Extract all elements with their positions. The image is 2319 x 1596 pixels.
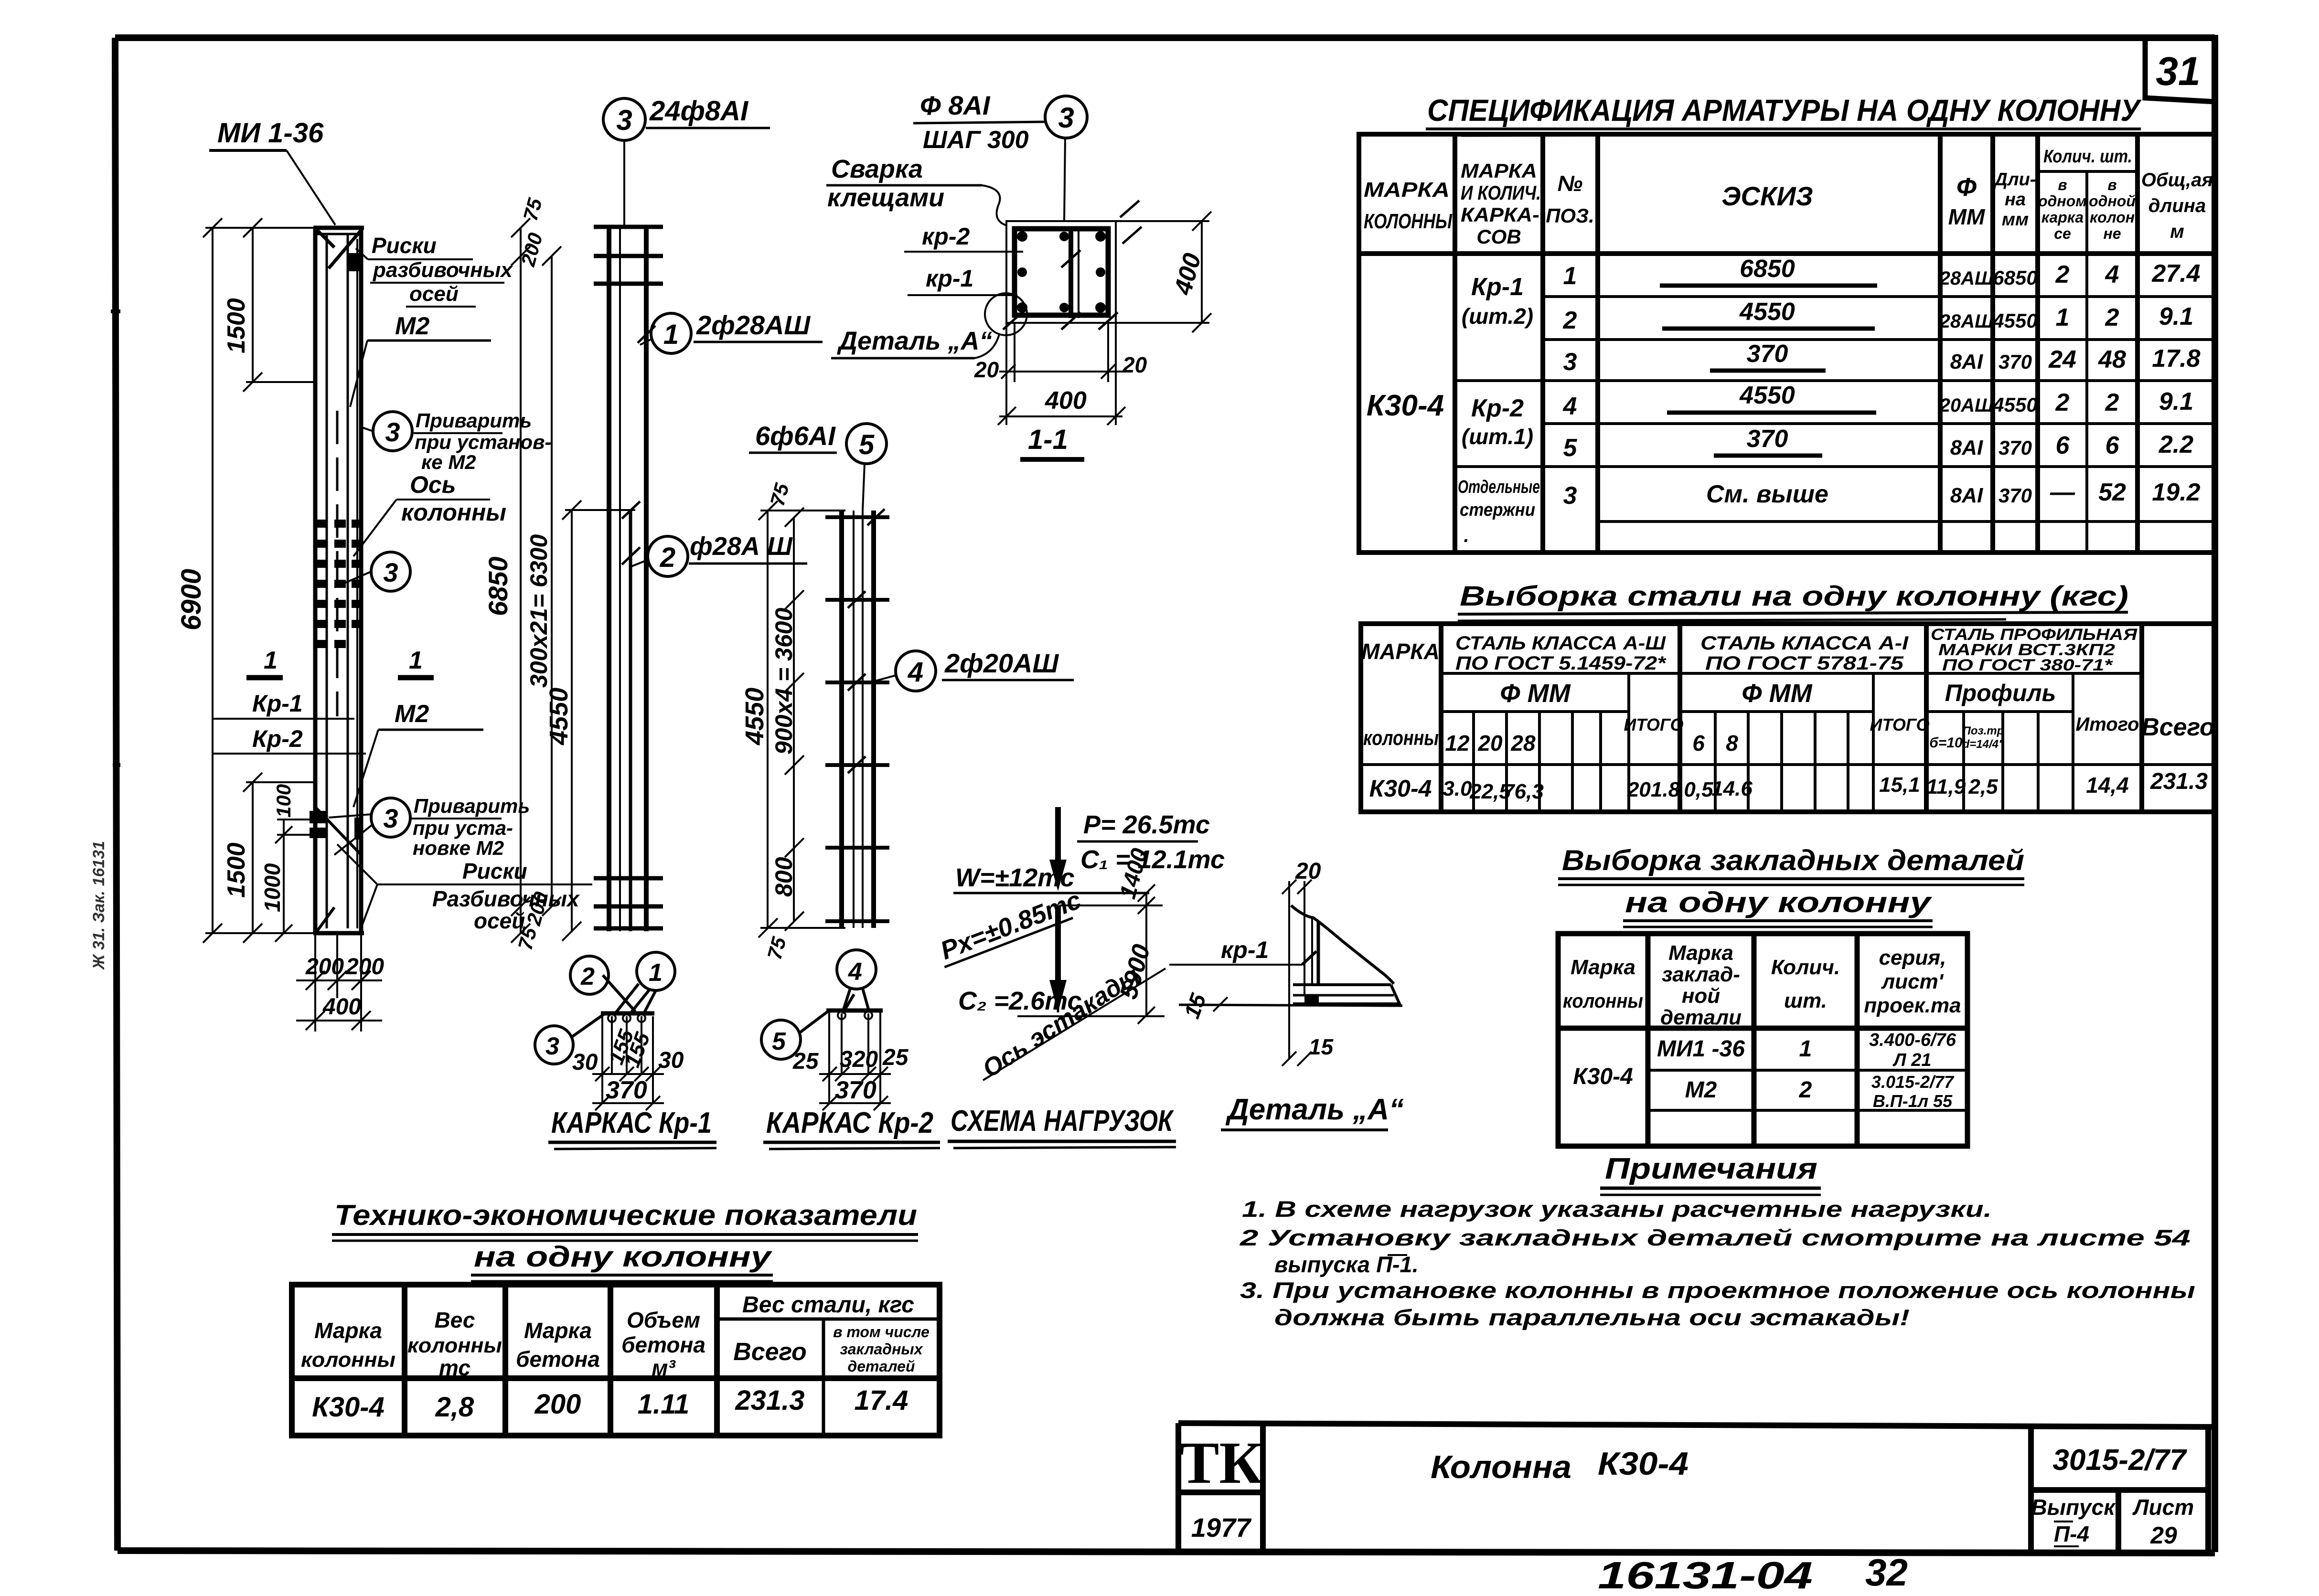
svg-text:кр-1: кр-1 xyxy=(1221,936,1269,963)
svg-text:2,8: 2,8 xyxy=(435,1392,474,1423)
svg-text:2: 2 xyxy=(1563,307,1577,334)
tick marks on bars xyxy=(622,326,655,564)
svg-text:—: — xyxy=(2050,479,2075,506)
svg-text:колон: колон xyxy=(2090,209,2135,226)
svg-text:2ф28АШ: 2ф28АШ xyxy=(696,310,811,340)
svg-text:Профиль: Профиль xyxy=(1945,680,2056,706)
svg-text:на одну колонну: на одну колонну xyxy=(1625,886,1932,918)
svg-text:лист': лист' xyxy=(1881,970,1944,993)
svg-text:в том числе: в том числе xyxy=(833,1323,930,1341)
svg-text:се: се xyxy=(2054,225,2071,242)
svg-text:4550: 4550 xyxy=(1739,298,1795,326)
callout 3 bottom with text xyxy=(371,798,410,837)
svg-text:400: 400 xyxy=(322,994,361,1020)
svg-text:370: 370 xyxy=(1998,484,2032,507)
svg-text:закладных: закладных xyxy=(840,1341,923,1358)
svg-text:d=14/4": d=14/4" xyxy=(1963,738,2004,751)
svg-text:ПОЗ.: ПОЗ. xyxy=(1546,204,1594,227)
svg-text:4: 4 xyxy=(908,657,923,688)
svg-text:М2: М2 xyxy=(395,312,429,340)
svg-text:1-1: 1-1 xyxy=(1028,424,1068,455)
svg-text:Отдельные: Отдельные xyxy=(1458,477,1540,497)
svg-text:К30-4: К30-4 xyxy=(1598,1446,1688,1482)
svg-text:6850: 6850 xyxy=(483,556,513,616)
svg-text:Приварить: Приварить xyxy=(414,795,530,817)
svg-text:СТАЛЬ КЛАССА А-Ш: СТАЛЬ КЛАССА А-Ш xyxy=(1455,633,1666,654)
svg-text:Л 21: Л 21 xyxy=(1892,1050,1932,1070)
svg-text:5: 5 xyxy=(1563,434,1578,462)
svg-text:К30-4: К30-4 xyxy=(312,1392,385,1423)
svg-text:Приварить: Приварить xyxy=(416,409,532,432)
svg-text:29: 29 xyxy=(2150,1522,2177,1549)
svg-text:разбивочных: разбивочных xyxy=(373,258,513,282)
weld tie bands middle xyxy=(316,520,362,648)
dims 6850 / 300x21=6300 between column and cage xyxy=(511,218,561,943)
svg-text:Всего: Всего xyxy=(2141,713,2215,741)
svg-text:клещами: клещами xyxy=(827,183,944,212)
svg-text:Марка: Марка xyxy=(1571,956,1635,979)
svg-text:30: 30 xyxy=(572,1050,598,1075)
svg-text:Деталь „А“: Деталь „А“ xyxy=(1225,1093,1404,1126)
svg-text:Всего: Всего xyxy=(733,1338,807,1366)
svg-text:карка: карка xyxy=(2041,209,2084,226)
svg-text:Сварка: Сварка xyxy=(831,155,923,183)
dim 1000 and 100 bottom xyxy=(275,819,315,942)
middle bars xyxy=(1069,226,1073,318)
svg-text:Колич.: Колич. xyxy=(1771,956,1840,979)
svg-text:Ф 8АІ: Ф 8АІ xyxy=(920,90,991,120)
svg-text:2: 2 xyxy=(1799,1077,1812,1103)
svg-text:15: 15 xyxy=(1309,1034,1334,1059)
svg-text:25: 25 xyxy=(792,1049,819,1074)
svg-text:ПО ГОСТ 5781-75: ПО ГОСТ 5781-75 xyxy=(1705,653,1904,674)
column corner contour xyxy=(1291,905,1394,984)
svg-text:деталей: деталей xyxy=(847,1358,915,1375)
svg-text:К30-4: К30-4 xyxy=(1367,389,1444,422)
svg-text:Технико-экономические показате: Технико-экономические показатели xyxy=(334,1199,917,1231)
svg-text:осей: осей xyxy=(409,282,459,306)
svg-text:28АШ: 28АШ xyxy=(1939,311,1994,332)
svg-text:серия,: серия, xyxy=(1879,946,1946,969)
top embedded detail MI1-36 xyxy=(316,229,361,268)
svg-text:16131-04: 16131-04 xyxy=(1598,1554,1813,1596)
sheet number box 31 xyxy=(2145,39,2215,102)
svg-text:Колич. шт.: Колич. шт. xyxy=(2043,147,2132,167)
bottom width dims 200 200 400 xyxy=(296,933,382,1032)
svg-text:370: 370 xyxy=(1998,436,2032,459)
svg-text:6: 6 xyxy=(2105,432,2120,459)
svg-text:ИТОГО: ИТОГО xyxy=(1624,715,1683,734)
svg-text:3: 3 xyxy=(385,417,400,447)
svg-text:27.4: 27.4 xyxy=(2151,260,2200,287)
svg-text:в: в xyxy=(2058,176,2067,193)
svg-text:Поз.тр: Поз.тр xyxy=(1963,724,2004,737)
svg-text:3: 3 xyxy=(616,104,632,136)
svg-text:Итого: Итого xyxy=(2075,714,2139,735)
svg-text:.: . xyxy=(1464,525,1469,546)
svg-text:СТАЛЬ КЛАССА А-I: СТАЛЬ КЛАССА А-I xyxy=(1700,633,1909,654)
section square outer xyxy=(1006,221,1116,323)
sketch bars in eskiz column xyxy=(1660,286,1877,456)
svg-text:И КОЛИЧ.: И КОЛИЧ. xyxy=(1461,181,1541,204)
bottom diagonal marks xyxy=(315,807,361,934)
svg-text:2.2: 2.2 xyxy=(2159,431,2193,458)
svg-text:КОЛОННЫ: КОЛОННЫ xyxy=(1364,210,1453,233)
svg-text:1: 1 xyxy=(649,959,663,987)
svg-text:длина: длина xyxy=(2148,195,2206,216)
svg-text:400: 400 xyxy=(1045,387,1087,415)
svg-text:КАРКАС Кр-2: КАРКАС Кр-2 xyxy=(766,1107,933,1139)
spec rows: poz / sketch / dia / len / qty / qty / total xyxy=(1563,255,2201,510)
svg-text:C₁ = 12.1тс: C₁ = 12.1тс xyxy=(1080,845,1225,874)
svg-text:8АІ: 8АІ xyxy=(1950,350,1983,373)
svg-text:2,5: 2,5 xyxy=(1968,775,1998,798)
svg-text:(шт.2): (шт.2) xyxy=(1462,304,1533,329)
svg-text:шт.: шт. xyxy=(1784,989,1827,1012)
svg-text:Объем: Объем xyxy=(627,1308,700,1332)
svg-text:ф28А Ш: ф28А Ш xyxy=(690,532,793,561)
svg-text:8АІ: 8АІ xyxy=(1950,484,1983,507)
svg-text:осей: осей xyxy=(474,908,525,933)
svg-text:800: 800 xyxy=(770,857,797,897)
svg-text:3: 3 xyxy=(545,1032,559,1060)
svg-text:2: 2 xyxy=(660,542,675,573)
svg-text:Ф ММ: Ф ММ xyxy=(1500,679,1571,708)
svg-text:МИ1 -36: МИ1 -36 xyxy=(1657,1036,1745,1062)
svg-text:новке М2: новке М2 xyxy=(413,837,504,859)
svg-text:Выборка закладных деталей: Выборка закладных деталей xyxy=(1562,844,2024,876)
svg-text:4550: 4550 xyxy=(1739,382,1795,409)
svg-text:К30-4: К30-4 xyxy=(1369,775,1432,802)
svg-text:СХЕМА НАГРУЗОК: СХЕМА НАГРУЗОК xyxy=(951,1105,1174,1138)
svg-text:стержни: стержни xyxy=(1460,500,1535,520)
svg-text:30: 30 xyxy=(658,1048,684,1073)
svg-text:Выпуск: Выпуск xyxy=(2031,1495,2116,1520)
spec table grid xyxy=(1359,134,2215,553)
svg-text:3: 3 xyxy=(383,803,398,833)
svg-text:2: 2 xyxy=(580,963,595,990)
svg-text:должна быть параллельна оси э: должна быть параллельна оси эстакады! xyxy=(1274,1305,1910,1330)
svg-text:6: 6 xyxy=(1692,731,1705,755)
svg-text:(шт.1): (шт.1) xyxy=(1462,424,1533,449)
svg-text:28: 28 xyxy=(1510,731,1536,755)
svg-text:МАРКА: МАРКА xyxy=(1364,178,1450,202)
dim 1500 bottom xyxy=(243,773,315,943)
svg-text:М2: М2 xyxy=(1685,1077,1717,1103)
svg-text:Дли-: Дли- xyxy=(1993,170,2036,190)
svg-text:колонны: колонны xyxy=(1563,990,1643,1012)
svg-text:ной: ной xyxy=(1682,984,1720,1008)
svg-text:МАРКА: МАРКА xyxy=(1361,639,1440,664)
callout 3 with 24f8AI xyxy=(603,98,645,140)
svg-text:на: на xyxy=(2005,190,2026,210)
svg-text:ПО ГОСТ 5.1459-72*: ПО ГОСТ 5.1459-72* xyxy=(1455,653,1667,674)
force arrow P xyxy=(1049,807,1067,891)
svg-text:№: № xyxy=(1558,171,1583,196)
svg-text:9.1: 9.1 xyxy=(2159,303,2193,330)
svg-text:Кр-1: Кр-1 xyxy=(1471,273,1524,301)
svg-text:28АШ: 28АШ xyxy=(1939,268,1994,289)
callout 4 2f20AIII xyxy=(896,651,936,691)
svg-text:25: 25 xyxy=(882,1045,909,1070)
svg-text:100: 100 xyxy=(272,784,295,818)
svg-text:20: 20 xyxy=(1477,731,1503,755)
svg-text:Марка: Марка xyxy=(524,1318,592,1343)
svg-text:Марка: Марка xyxy=(1668,941,1733,965)
svg-text:Кр-2: Кр-2 xyxy=(252,725,303,752)
spec table headers xyxy=(1364,147,2213,248)
svg-text:4: 4 xyxy=(848,958,862,986)
svg-text:0,5: 0,5 xyxy=(1684,778,1713,801)
svg-text:4: 4 xyxy=(1563,393,1577,420)
svg-text:15,1: 15,1 xyxy=(1879,773,1920,797)
svg-text:12: 12 xyxy=(1445,731,1470,755)
svg-text:31: 31 xyxy=(2156,49,2200,94)
svg-text:Ж 31. Зак. 16131: Ж 31. Зак. 16131 xyxy=(90,841,108,970)
svg-text:11,9: 11,9 xyxy=(1926,775,1966,798)
svg-text:2 Установку закладных детал: 2 Установку закладных деталей смотрите н… xyxy=(1240,1225,2191,1250)
svg-text:Кр-2: Кр-2 xyxy=(1471,394,1524,422)
svg-text:2: 2 xyxy=(2055,389,2070,416)
column body xyxy=(313,228,364,933)
svg-text:48: 48 xyxy=(2098,346,2126,373)
svg-text:19.2: 19.2 xyxy=(2152,479,2200,506)
svg-text:ПО ГОСТ 380-71*: ПО ГОСТ 380-71* xyxy=(1942,656,2113,674)
svg-text:б=10: б=10 xyxy=(1929,735,1963,751)
svg-text:Риски: Риски xyxy=(372,233,437,258)
Kr-2 plan below xyxy=(837,950,876,989)
svg-text:м³: м³ xyxy=(652,1355,676,1380)
right dim 1400 / 5900 xyxy=(1138,884,1155,1024)
callout 3 middle xyxy=(371,552,410,591)
svg-text:Ось: Ось xyxy=(410,471,456,498)
svg-text:4550: 4550 xyxy=(1992,309,2037,332)
svg-text:кр-1: кр-1 xyxy=(926,265,973,292)
svg-text:1: 1 xyxy=(264,647,278,674)
svg-text:P= 26.5тс: P= 26.5тс xyxy=(1083,810,1210,839)
svg-text:300х21= 6300: 300х21= 6300 xyxy=(525,534,552,688)
6 ties xyxy=(825,517,889,921)
svg-text:3: 3 xyxy=(383,557,398,587)
svg-text:КАРКА-: КАРКА- xyxy=(1461,203,1539,226)
svg-text:370: 370 xyxy=(1998,351,2032,373)
svg-text:20: 20 xyxy=(974,357,999,382)
left margin small marks xyxy=(111,309,120,313)
svg-text:П-4: П-4 xyxy=(2054,1522,2089,1546)
svg-text:3.015-2/77: 3.015-2/77 xyxy=(1871,1072,1955,1092)
weld pieces bottom M2 xyxy=(310,811,363,840)
svg-text:370: 370 xyxy=(835,1076,876,1104)
svg-text:м: м xyxy=(2170,221,2184,242)
svg-text:1000: 1000 xyxy=(260,863,285,912)
svg-text:370: 370 xyxy=(1747,340,1788,368)
svg-text:колонны: колонны xyxy=(301,1348,395,1372)
svg-text:8АІ: 8АІ xyxy=(1950,436,1983,459)
svg-text:231.3: 231.3 xyxy=(2150,769,2208,794)
callout 2 1f28AIII xyxy=(648,536,688,576)
svg-text:1500: 1500 xyxy=(223,298,250,353)
svg-text:4550: 4550 xyxy=(740,688,769,745)
axis estakady diagonal xyxy=(983,968,1165,1080)
column axis (dashed) xyxy=(336,411,339,716)
svg-text:32: 32 xyxy=(1865,1551,1908,1594)
svg-text:МАРКА: МАРКА xyxy=(1461,160,1537,182)
svg-text:2ф20АШ: 2ф20АШ xyxy=(944,648,1059,678)
svg-text:3: 3 xyxy=(1563,348,1577,376)
svg-text:См. выше: См. выше xyxy=(1706,480,1828,508)
svg-text:2: 2 xyxy=(2055,261,2070,288)
svg-text:6ф6АІ: 6ф6АІ xyxy=(755,421,836,451)
svg-text:Вес: Вес xyxy=(435,1308,475,1332)
dim 1500 top xyxy=(243,218,315,392)
svg-text:4: 4 xyxy=(2105,261,2119,288)
svg-text:3: 3 xyxy=(1058,102,1074,134)
svg-text:52: 52 xyxy=(2098,479,2126,506)
svg-text:М2: М2 xyxy=(395,700,429,728)
svg-text:1: 1 xyxy=(2056,304,2070,331)
svg-text:Выборка стали на одну колонну: Выборка стали на одну колонну (кгс) xyxy=(1460,581,2128,612)
svg-text:В.П-1л 55: В.П-1л 55 xyxy=(1873,1091,1953,1111)
svg-text:3.400-6/76: 3.400-6/76 xyxy=(1869,1030,1956,1050)
svg-text:6850: 6850 xyxy=(1740,255,1795,283)
spec table column 1+2 contents xyxy=(1367,273,1540,546)
svg-text:Вес стали, кгс: Вес стали, кгс xyxy=(742,1292,914,1318)
svg-text:МИ 1-36: МИ 1-36 xyxy=(217,117,324,149)
svg-text:2: 2 xyxy=(2105,389,2119,416)
svg-text:320: 320 xyxy=(840,1047,878,1072)
diagonal ticks on section xyxy=(1003,201,1142,330)
svg-text:231.3: 231.3 xyxy=(735,1385,804,1416)
svg-text:14.6: 14.6 xyxy=(1711,777,1753,800)
svg-text:W=±12тс: W=±12тс xyxy=(955,863,1075,892)
svg-text:Ф ММ: Ф ММ xyxy=(1742,679,1812,708)
embedded plate xyxy=(1293,983,1391,986)
svg-text:9.1: 9.1 xyxy=(2159,388,2193,415)
svg-text:Примечания: Примечания xyxy=(1605,1152,1817,1185)
svg-text:900х4 = 3600: 900х4 = 3600 xyxy=(770,608,797,755)
svg-text:8: 8 xyxy=(1726,731,1738,755)
svg-text:ИТОГО: ИТОГО xyxy=(1870,715,1929,734)
svg-text:ке М2: ке М2 xyxy=(421,451,476,473)
svg-text:5: 5 xyxy=(772,1028,786,1055)
svg-text:Лист: Лист xyxy=(2132,1495,2194,1520)
svg-text:СОВ: СОВ xyxy=(1476,225,1521,248)
svg-text:6850: 6850 xyxy=(1993,266,2037,289)
svg-text:бетона: бетона xyxy=(621,1332,705,1357)
svg-text:в: в xyxy=(2107,176,2116,193)
dims left of Kr-2 xyxy=(759,501,845,937)
svg-text:Общ,ая: Общ,ая xyxy=(2141,170,2213,191)
svg-text:бетона: бетона xyxy=(516,1347,600,1372)
svg-text:4550: 4550 xyxy=(545,688,573,745)
svg-text:1: 1 xyxy=(1799,1036,1812,1062)
svg-text:6: 6 xyxy=(2056,432,2070,459)
svg-text:заклад-: заклад- xyxy=(1662,963,1740,986)
svg-text:4550: 4550 xyxy=(1992,394,2037,416)
callout 3: privarit top xyxy=(373,412,412,451)
svg-text:проек.та: проек.та xyxy=(1864,994,1961,1017)
svg-text:ТК: ТК xyxy=(1179,1430,1262,1496)
svg-text:200: 200 xyxy=(534,1389,581,1420)
ground line xyxy=(1179,1005,1402,1006)
svg-text:17.4: 17.4 xyxy=(855,1385,908,1416)
svg-text:детали: детали xyxy=(1660,1006,1742,1029)
svg-text:370: 370 xyxy=(1747,425,1788,453)
svg-text:Кр-1: Кр-1 xyxy=(252,690,303,717)
plan dims xyxy=(592,1067,664,1110)
svg-text:одной: одной xyxy=(2089,192,2136,210)
cage Kr-1 bars xyxy=(609,225,646,931)
svg-text:при уста-: при уста- xyxy=(413,817,513,839)
svg-text:одном: одном xyxy=(2038,192,2087,210)
svg-text:20: 20 xyxy=(1295,859,1321,884)
svg-text:не: не xyxy=(2103,225,2121,242)
svg-text:тс: тс xyxy=(439,1355,470,1380)
svg-text:1977: 1977 xyxy=(1191,1512,1252,1543)
svg-text:3: 3 xyxy=(1563,482,1577,510)
svg-text:Деталь „А“: Деталь „А“ xyxy=(837,327,992,355)
svg-text:5: 5 xyxy=(859,429,875,460)
svg-text:Риски: Риски xyxy=(462,859,527,883)
svg-text:2: 2 xyxy=(2105,304,2119,331)
svg-text:колонны: колонны xyxy=(1363,726,1439,750)
svg-text:1.11: 1.11 xyxy=(638,1389,690,1420)
svg-text:14,4: 14,4 xyxy=(2086,773,2129,798)
svg-text:ШАГ 300: ШАГ 300 xyxy=(923,126,1029,154)
cage Kr-1 ties top/bottom xyxy=(594,227,663,928)
svg-text:мм: мм xyxy=(2002,210,2029,230)
Kr-1 plan view below xyxy=(570,956,609,994)
svg-text:1: 1 xyxy=(1563,262,1577,290)
svg-text:Колонна: Колонна xyxy=(1431,1449,1571,1485)
svg-text:24: 24 xyxy=(2048,346,2076,373)
section square inner (stirrup) xyxy=(1015,229,1108,315)
right dim 400 xyxy=(1116,212,1211,332)
svg-text:17.8: 17.8 xyxy=(2152,345,2200,372)
svg-text:3.0: 3.0 xyxy=(1443,777,1472,800)
svg-text:Марка: Марка xyxy=(314,1318,382,1343)
svg-text:СПЕЦИФИКАЦИЯ АРМАТУРЫ НА ОДНУ: СПЕЦИФИКАЦИЯ АРМАТУРЫ НА ОДНУ КОЛОННУ xyxy=(1427,93,2142,128)
svg-text:3015-2/77: 3015-2/77 xyxy=(2052,1444,2187,1477)
svg-text:201.8: 201.8 xyxy=(1627,778,1680,801)
svg-text:1500: 1500 xyxy=(223,842,250,898)
svg-text:на одну колонну: на одну колонну xyxy=(474,1241,772,1273)
callout 1 2f28AIII xyxy=(651,313,691,353)
svg-text:1. В схеме нагрузок указаны ра: 1. В схеме нагрузок указаны расчетные на… xyxy=(1242,1196,1992,1222)
svg-text:20АШ: 20АШ xyxy=(1939,395,1994,416)
svg-text:ЭСКИЗ: ЭСКИЗ xyxy=(1721,181,1813,211)
svg-text:3. При установке колонны в пр: 3. При установке колонны в проектное пол… xyxy=(1240,1277,2195,1303)
svg-text:колонны: колонны xyxy=(401,499,506,526)
svg-text:К30-4: К30-4 xyxy=(1573,1064,1633,1089)
svg-text:76,3: 76,3 xyxy=(1503,780,1544,803)
svg-text:ММ: ММ xyxy=(1948,204,1986,229)
svg-text:колонны: колонны xyxy=(407,1334,502,1357)
dim 6900 (left) xyxy=(203,218,315,943)
second arrow xyxy=(1049,905,1067,1012)
svg-text:при установ-: при установ- xyxy=(415,431,551,453)
svg-text:Ф: Ф xyxy=(1956,173,1977,202)
detail A callout circle xyxy=(985,293,1027,335)
svg-text:200: 200 xyxy=(345,954,384,979)
svg-text:1: 1 xyxy=(409,647,423,674)
svg-text:1: 1 xyxy=(663,319,679,350)
svg-text:КАРКАС Кр-1: КАРКАС Кр-1 xyxy=(551,1107,712,1139)
svg-text:200: 200 xyxy=(305,954,344,979)
svg-text:24ф8АІ: 24ф8АІ xyxy=(649,96,749,127)
svg-text:кр-2: кр-2 xyxy=(922,223,970,250)
svg-text:370: 370 xyxy=(606,1076,647,1104)
